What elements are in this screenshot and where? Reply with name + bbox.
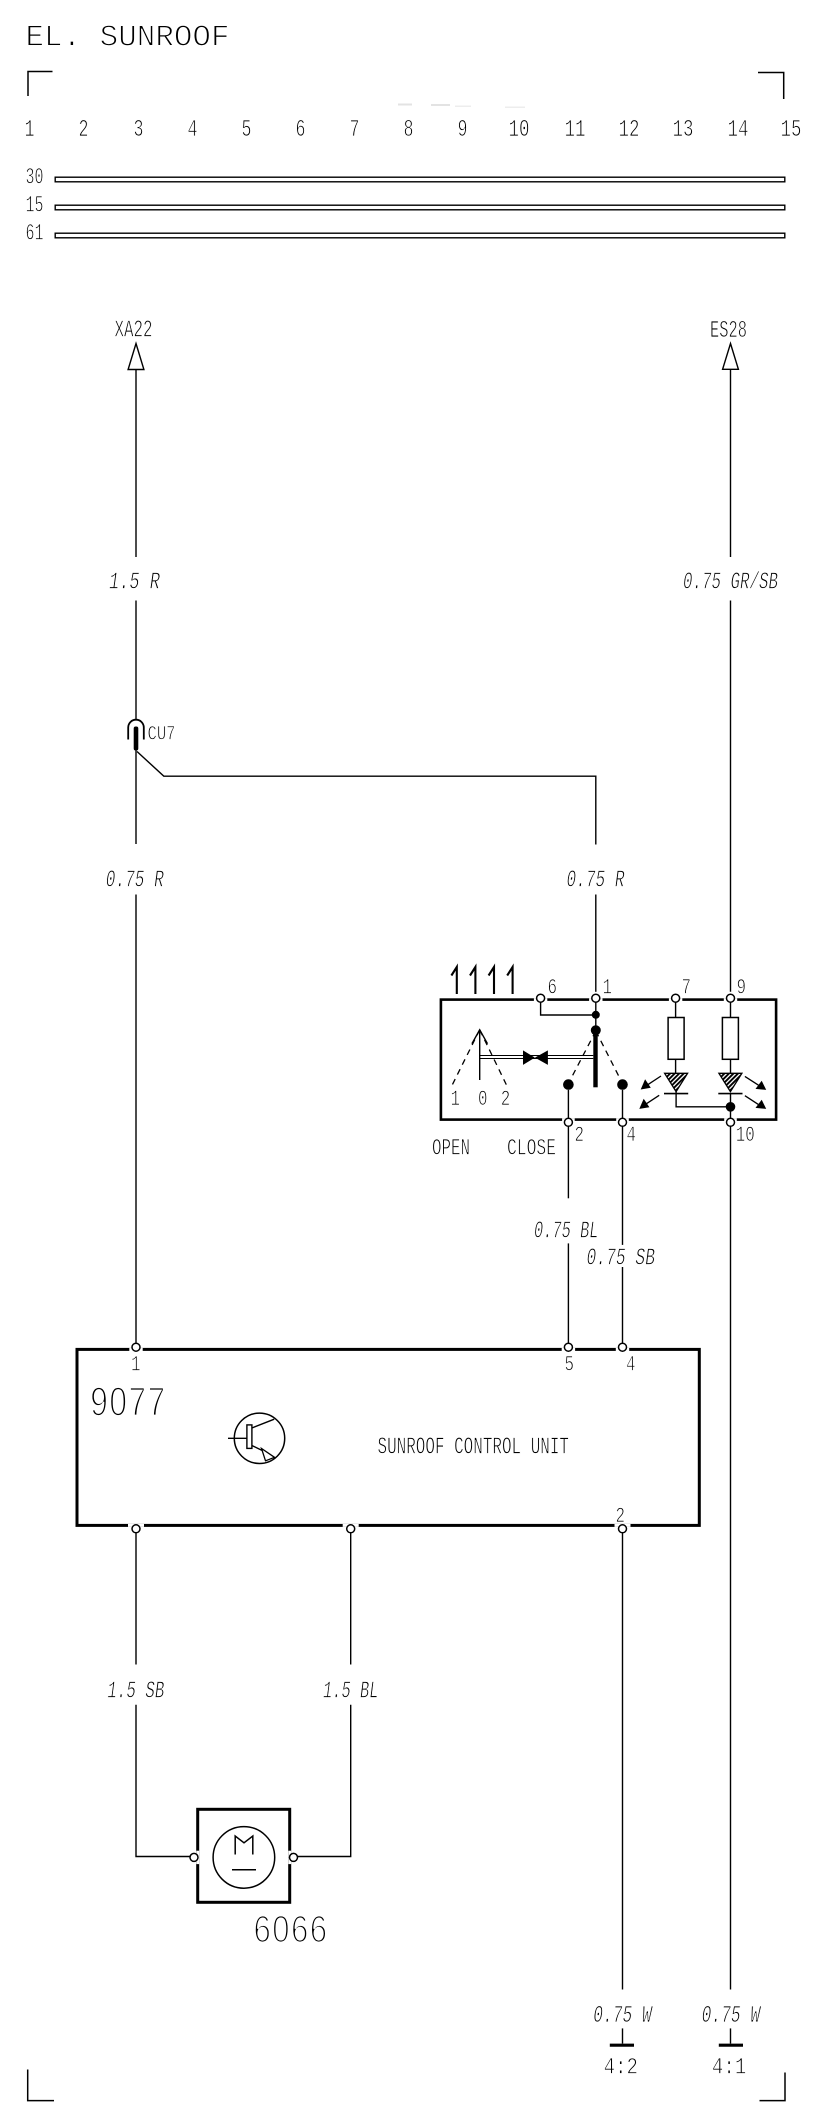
pin 9 [724,998,737,1001]
switch pivot [591,1025,601,1035]
motor M glyph [235,1836,253,1855]
svg-text:6066: 6066 [253,1909,328,1954]
transistor emitter [252,1446,263,1451]
svg-text:11: 11 [565,117,586,144]
svg-text:4:1: 4:1 [712,2055,746,2081]
wire pin9 to resistor [730,1002,732,1073]
position dashed left [452,1030,479,1085]
svg-text:2: 2 [616,1504,626,1529]
svg-text:OPEN: OPEN [432,1136,470,1162]
wire motor right upper [350,1533,352,1665]
svg-text:7: 7 [682,976,692,1001]
svg-text:2: 2 [79,117,89,144]
wire unit pin2 down [622,1533,624,1990]
unit pin 5 [562,1348,575,1351]
motor pin left [196,1851,199,1864]
svg-text:4: 4 [188,117,198,144]
transistor emitter arrowhead [262,1449,275,1461]
svg-text:9077: 9077 [90,1380,167,1429]
linkage bowtie [523,1050,548,1065]
wire to ground 4:2 [622,2028,624,2043]
junction node [592,1011,600,1019]
svg-text:XA22: XA22 [115,318,153,345]
svg-text:2: 2 [501,1087,511,1112]
contact left [563,1079,574,1090]
svg-text:1: 1 [131,1353,141,1378]
unit bottom pin b [343,1524,359,1527]
transistor base lead [228,1437,247,1439]
svg-text:EL. SUNROOF: EL. SUNROOF [26,20,230,55]
transistor collector [252,1419,274,1428]
wire ES28 down (upper) [730,369,732,557]
motor circle [213,1827,275,1889]
svg-text:1: 1 [451,1087,461,1112]
pin 2 [562,1118,575,1121]
svg-text:9: 9 [458,117,468,144]
frame corner top-right [758,73,784,100]
ruler column numbers 1-15 [25,117,802,144]
svg-text:8: 8 [404,117,414,144]
wire pin1 down [595,1002,597,1026]
pin 7 [669,998,682,1001]
fuse tap CU7 bar [134,727,139,751]
wire motor left upper [135,1533,137,1665]
contact right [617,1079,628,1090]
wire pin2 to unit pin5 [567,1243,569,1343]
svg-text:0.75 W: 0.75 W [593,2003,653,2030]
wire contact left to pin 2 [567,1090,569,1118]
wire motor left lower [136,1705,190,1857]
motor underline [232,1869,256,1871]
linkage double line [480,1056,594,1059]
connector XA22 arrow [128,344,144,370]
faint artifact marks [398,104,525,109]
frame corner top-left [28,72,53,97]
svg-text:1.5 SB: 1.5 SB [107,1679,164,1706]
position indicator stem [479,1030,481,1080]
resistor left [668,1018,684,1060]
svg-text:61: 61 [26,221,44,247]
wire contact right to pin 4 [622,1090,624,1118]
resistor right [722,1018,738,1060]
unit bottom pin a [128,1524,144,1527]
frame corner bottom-left [28,2070,54,2101]
svg-text:2: 2 [575,1123,585,1148]
bus 61 bar [55,233,785,238]
ground 4:1 bar [719,2044,743,2047]
wire down to switch pin 1 [595,895,597,992]
svg-text:0.75 R: 0.75 R [106,867,164,894]
svg-text:0.75 W: 0.75 W [702,2003,762,2030]
lever dashed path right [596,1031,623,1084]
switch box [441,1000,776,1120]
svg-text:0.75 SB: 0.75 SB [587,1246,656,1273]
svg-text:10: 10 [736,1123,755,1148]
LED left cathode [664,1093,688,1095]
svg-text:1.5 BL: 1.5 BL [323,1679,379,1706]
transistor circle [234,1413,284,1463]
LED left arrows [646,1076,661,1104]
wire to ground 4:1 [730,2028,732,2043]
control unit box 9077 [77,1349,699,1525]
wire left arm to control unit pin 1 [135,895,137,1344]
svg-text:0.75 R: 0.75 R [567,867,625,894]
svg-text:9: 9 [737,976,747,1001]
wire LED left to junction [676,1092,726,1107]
fuse tap CU7 hood [128,720,144,740]
pin 10 [724,1118,737,1121]
svg-text:3: 3 [134,117,144,144]
wire XA22 down to CU7 [135,601,137,720]
position dashed right [480,1030,507,1085]
svg-text:15: 15 [781,117,802,144]
frame corner bottom-right [760,2073,786,2101]
svg-text:4: 4 [627,1123,637,1148]
svg-text:6: 6 [548,976,558,1001]
transistor base bar [247,1425,252,1449]
svg-text:12: 12 [619,117,640,144]
svg-text:1: 1 [25,117,35,144]
svg-text:5: 5 [565,1353,575,1378]
wire ES28 down to switch pin 9 [730,601,732,992]
wire pin10 down right side [730,1126,732,1989]
wire pin7 to resistor [675,1002,677,1073]
bus 15 bar [55,205,785,210]
unit pin 2 [615,1524,631,1527]
zero dot patch 9077 [115,1398,122,1406]
LED right cathode [718,1093,742,1095]
lever dashed path left [568,1031,595,1084]
pin 4 [616,1118,629,1121]
wire below CU7 [135,751,137,845]
motor pin right [288,1851,291,1864]
bus 30 bar [55,177,785,182]
wire pin4 down [622,1126,624,1245]
svg-text:4: 4 [626,1353,636,1378]
wire pin2 down [567,1126,569,1198]
LED right [719,1073,742,1091]
pin 6 [534,998,547,1001]
svg-text:6: 6 [296,117,306,144]
svg-text:13: 13 [673,117,694,144]
branch wire CU7 to switch [137,752,596,845]
switch 1111 label [451,967,512,994]
svg-text:SUNROOF CONTROL UNIT: SUNROOF CONTROL UNIT [378,1435,570,1462]
wire pin4 to unit pin4 [622,1267,624,1343]
svg-text:15: 15 [26,193,44,219]
junction node 10 [726,1102,736,1112]
svg-text:10: 10 [509,117,530,144]
pin 1 [589,998,602,1001]
svg-text:14: 14 [728,117,749,144]
wire LED right down [730,1094,732,1118]
svg-text:5: 5 [242,117,252,144]
unit pin 4 [616,1348,629,1351]
svg-text:4:2: 4:2 [604,2055,638,2081]
zero dot patch 6066 [278,1925,285,1933]
LED right arrows [745,1076,759,1104]
svg-text:7: 7 [350,117,360,144]
svg-text:0.75 BL: 0.75 BL [534,1219,599,1246]
ground 4:2 bar [610,2044,634,2047]
svg-text:30: 30 [26,165,44,191]
svg-text:0.75 GR/SB: 0.75 GR/SB [683,570,778,597]
svg-text:ES28: ES28 [710,318,747,345]
position indicator caret [472,1030,488,1044]
unit pin 1 [129,1348,142,1351]
wire motor right lower [298,1705,351,1857]
LED left [665,1073,688,1091]
svg-text:1: 1 [603,976,613,1001]
wire pin6 to junction [541,1002,596,1015]
switch lever [593,1030,597,1087]
wire XA22 down (upper) [135,370,137,558]
svg-text:1.5 R: 1.5 R [109,570,160,597]
svg-text:0: 0 [478,1087,488,1112]
connector ES28 arrow [723,344,739,370]
svg-text:CLOSE: CLOSE [507,1136,556,1162]
motor box 6066 [198,1809,290,1902]
svg-text:CU7: CU7 [148,724,176,747]
